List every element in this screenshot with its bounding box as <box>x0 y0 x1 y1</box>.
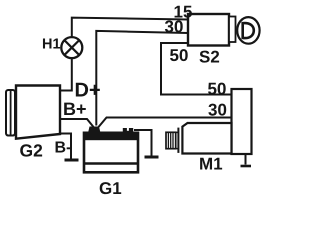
label D+ <box>76 83 100 97</box>
starter solenoid <box>232 89 252 154</box>
wire 30: switch S2 to battery positive <box>96 31 188 126</box>
label S2 <box>199 51 219 63</box>
starter ground <box>241 154 252 166</box>
generator G2 box <box>16 86 60 139</box>
wire D+: generator to lamp bottom <box>60 57 72 91</box>
label 15 <box>175 6 192 18</box>
wire B+: generator to battery positive <box>60 119 94 127</box>
label B+ <box>64 103 86 115</box>
starter pinion <box>166 132 178 148</box>
wire battery negative to ground <box>134 130 152 156</box>
label 50 at starter <box>208 83 226 95</box>
battery positive terminal <box>88 127 101 134</box>
label 30 at starter <box>208 104 226 116</box>
lamp H1 <box>61 37 82 58</box>
label 50 <box>170 49 188 61</box>
label G1 <box>100 182 122 194</box>
battery negative terminal <box>123 128 133 134</box>
switch connector stub <box>229 17 236 43</box>
ground under B- <box>65 159 79 162</box>
wire 15: lamp top to switch S2 <box>72 18 188 38</box>
wire B-: generator to ground <box>60 134 71 159</box>
key symbol <box>237 17 259 44</box>
label H1 <box>43 39 60 49</box>
label M1 <box>200 158 222 170</box>
wire 30 bus: battery positive to starter terminal <box>99 118 232 128</box>
starter motor body <box>178 123 231 154</box>
wire 50: switch S2 to starter solenoid <box>161 43 232 95</box>
label G2 <box>20 144 42 156</box>
label B- <box>56 141 71 152</box>
battery G1 <box>83 132 139 173</box>
label 30 <box>165 20 183 32</box>
generator pulley <box>6 90 17 136</box>
ignition switch S2 box <box>188 14 229 46</box>
ground battery negative <box>145 156 159 159</box>
